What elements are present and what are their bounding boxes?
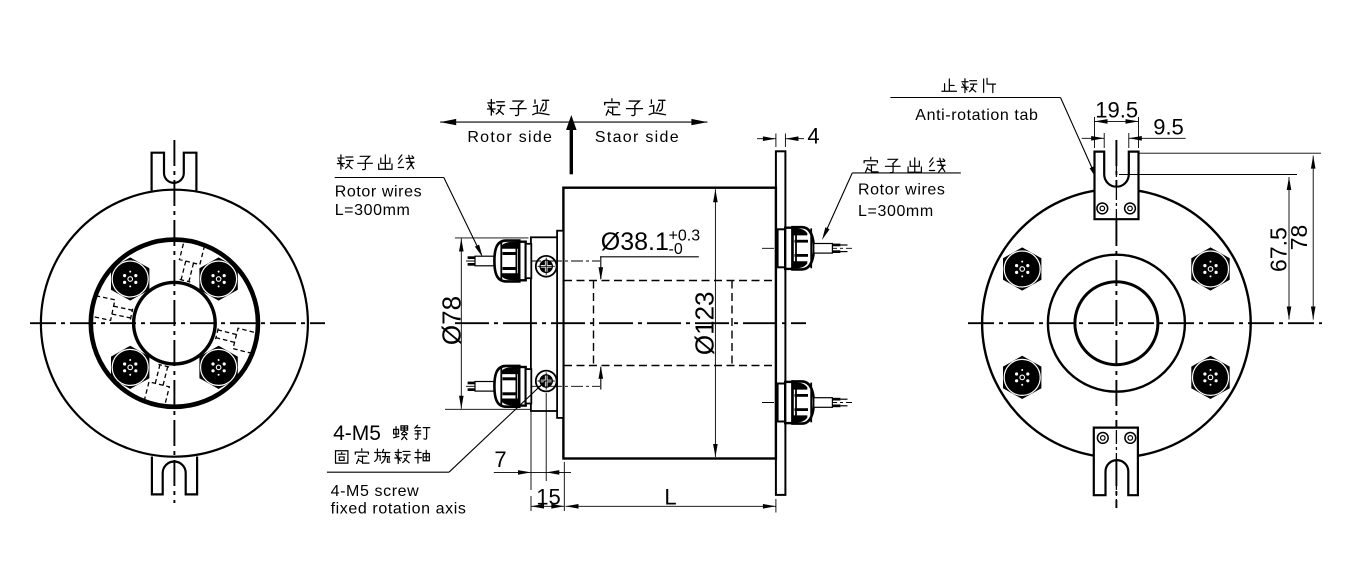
dimension 19.5 extension lines: [1095, 117, 1139, 148]
dimension 78 line and arrows: [1311, 156, 1316, 320]
label Anti-rotation tab: [915, 107, 1038, 124]
right view connector J6: [1191, 247, 1229, 290]
left view hidden key T4: [90, 295, 134, 324]
bore hidden line top: [564, 280, 775, 282]
svg-text:L=300mm: L=300mm: [858, 203, 934, 220]
svg-text:Rotor wires: Rotor wires: [335, 183, 423, 200]
svg-text:Ø38.1: Ø38.1: [601, 228, 669, 256]
rotor gland top: [466, 241, 600, 282]
label L=300mm right: [858, 203, 934, 220]
label 4-M5 screw: [331, 483, 420, 500]
dimension 9.5 extension lines: [1104, 133, 1129, 148]
right view bottom tab: [1094, 428, 1138, 496]
label 止转片: [942, 78, 996, 92]
left view vertical centerline: [173, 140, 175, 503]
svg-text:19.5: 19.5: [1095, 98, 1138, 123]
left view inner bore circle: [134, 282, 216, 364]
dimension Ø78 line and arrows: [459, 239, 464, 409]
right view vertical centerline: [1115, 140, 1117, 508]
svg-text:4-M5 screw: 4-M5 screw: [331, 483, 420, 500]
dimension 67.5 line and arrows: [1287, 177, 1292, 320]
divider up arrow: [566, 115, 577, 174]
svg-text:4-M5: 4-M5: [333, 422, 381, 445]
bore hidden line bottom: [564, 365, 775, 367]
leader rotor wires: [335, 178, 483, 258]
dimension L text: [664, 485, 676, 510]
left view connector J2: [199, 257, 237, 300]
dimension 15 text: [536, 485, 560, 510]
left view connector J1: [111, 257, 149, 300]
svg-text:L: L: [664, 485, 676, 510]
label 4-M5 螺钉: [333, 422, 430, 445]
svg-text:7: 7: [494, 447, 506, 472]
left view hidden key T3: [144, 363, 174, 407]
right view top tab centerline: [1115, 140, 1117, 225]
leader anti-rotation tab: [890, 98, 1097, 180]
dimension Ø38.1 text: [601, 228, 700, 259]
svg-text:9.5: 9.5: [1153, 114, 1184, 139]
svg-text:Rotor wires: Rotor wires: [858, 181, 946, 198]
dimension 7 extension lines: [531, 393, 546, 490]
label 定子边: [605, 99, 666, 116]
label 固定旋转轴: [336, 449, 430, 464]
svg-text:78: 78: [1286, 225, 1312, 251]
rotor gland bottom: [466, 366, 600, 407]
leader 4-M5 screw: [327, 382, 545, 473]
left view outer circle (housing): [41, 190, 308, 457]
left view connector J3: [111, 346, 149, 389]
right view bottom tab centerline: [1115, 430, 1117, 508]
left view hidden key T2: [214, 324, 258, 354]
left view bottom anti-rotation tab: [152, 457, 197, 495]
dimension 4 text: [807, 124, 819, 149]
rotor/stator divider line with arrows: [440, 119, 707, 125]
svg-text:15: 15: [536, 485, 560, 510]
screw top (M5): [536, 256, 557, 277]
dimension 67.5 extension line: [1119, 174, 1297, 176]
svg-text:Ø123: Ø123: [690, 291, 720, 355]
right view connector J7: [1003, 356, 1041, 399]
rotor flange plate: [531, 237, 557, 411]
left view hidden key T1: [175, 239, 205, 283]
dimension 4 extension lines: [776, 134, 786, 148]
dimension L line and arrows: [566, 499, 776, 513]
label L=300mm left: [335, 202, 411, 219]
dimension 15 line and arrows: [531, 504, 564, 509]
dimension 9.5 line and arrows: [1082, 136, 1186, 141]
svg-text:-0: -0: [669, 241, 683, 258]
dimension 67.5 text: [1266, 227, 1292, 272]
stator flange plate: [776, 151, 786, 495]
bore hidden line left: [593, 281, 595, 366]
dimension Ø78 text: [437, 296, 467, 345]
label fixed rotation axis: [331, 501, 467, 518]
right view connector J5: [1003, 247, 1041, 290]
dimension Ø38.1 leader and arrows: [599, 257, 699, 390]
svg-text:L=300mm: L=300mm: [335, 202, 411, 219]
dimension 9.5 text: [1153, 114, 1184, 139]
leader stator wires: [822, 173, 961, 240]
label Rotor wires left: [335, 183, 423, 200]
dimension 15 extension line: [531, 462, 564, 511]
svg-text:fixed rotation axis: fixed rotation axis: [331, 501, 467, 518]
dimension 78 text: [1286, 225, 1312, 251]
svg-text:Staor side: Staor side: [595, 129, 680, 146]
right view connector J8: [1191, 356, 1229, 399]
svg-text:4: 4: [807, 124, 819, 149]
right view horizontal centerline: [968, 322, 1322, 324]
dimension 78 extension line: [1139, 152, 1322, 154]
main body rectangle: [563, 188, 776, 459]
stator gland bottom: [762, 381, 852, 423]
dimension Ø78 extension lines: [445, 238, 530, 409]
label 定子出线: [864, 157, 945, 172]
right view outer circle: [982, 189, 1251, 458]
right view inner bore circle: [1075, 282, 1158, 365]
rotor flange disc: [557, 231, 563, 418]
label 转子边: [488, 100, 550, 116]
bore hidden line right: [731, 281, 733, 366]
svg-text:Ø78: Ø78: [437, 296, 467, 345]
dimension 4 line and arrows: [757, 136, 804, 141]
right view middle circle: [1048, 255, 1185, 392]
svg-text:Rotor side: Rotor side: [467, 129, 553, 146]
middle view main centerline: [455, 322, 806, 324]
label Rotor wires right: [858, 181, 946, 198]
label Rotor side: [467, 129, 553, 146]
dimension Ø123 line and arrows: [713, 189, 718, 457]
left view connector J4: [199, 346, 237, 389]
svg-text:Anti-rotation tab: Anti-rotation tab: [915, 107, 1038, 124]
dimension 7 text: [494, 447, 506, 472]
right view top tab: [1095, 152, 1139, 220]
dimension Ø123 text: [690, 291, 720, 355]
left view horizontal centerline: [30, 322, 325, 324]
dimension 19.5 text: [1095, 98, 1138, 123]
label Staor side: [595, 129, 680, 146]
dimension 7 line and arrows: [494, 470, 571, 475]
left view bolt-ring circle: [91, 240, 258, 407]
stator gland top: [762, 227, 852, 269]
left view top anti-rotation tab: [152, 153, 197, 191]
dimension 19.5 line and arrows: [1095, 119, 1139, 124]
screw bottom (M5): [536, 371, 557, 392]
label 转子出线: [337, 155, 414, 170]
